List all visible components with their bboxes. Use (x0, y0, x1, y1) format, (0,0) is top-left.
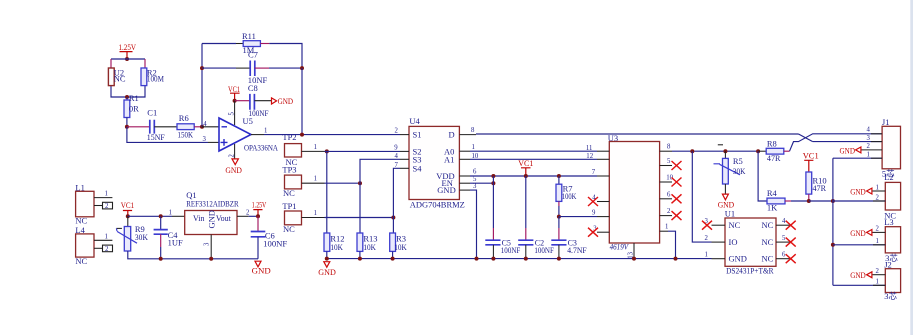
wire (maroon) node to C1 (127, 126, 150, 128)
ground port (J2.2) (850, 270, 872, 280)
resistor R7 100K (556, 183, 577, 201)
svg-text:TP1: TP1 (282, 201, 296, 211)
ground port (op-amp V-) (225, 159, 242, 175)
svg-text:10K: 10K (330, 242, 343, 252)
no-connect X U3.10 (672, 178, 682, 187)
pin U3.8 (660, 150, 672, 152)
svg-text:GND: GND (252, 265, 271, 275)
wire A1 to U3.12 (470, 158, 597, 160)
pin Q1.3 (bottom) (210, 235, 212, 259)
svg-text:100NF: 100NF (263, 238, 287, 248)
resistor R13 10K (357, 233, 378, 252)
wire (maroon) C2 top stub (525, 228, 527, 240)
svg-text:NC: NC (762, 220, 774, 230)
node: column x833 junction (831, 199, 835, 203)
pin U3.10 (no connect) (660, 181, 672, 183)
pin U5.3 (208, 141, 219, 143)
svg-text:R4: R4 (767, 188, 778, 198)
power port VC1 (middle) (518, 158, 533, 176)
svg-text:1: 1 (876, 238, 879, 245)
node: VC1/R9 junction (126, 214, 130, 218)
pin U4.3 GND (459, 189, 470, 191)
svg-text:1: 1 (314, 176, 317, 183)
pin stub L2.2 (873, 200, 885, 202)
node: right rail / C7 (300, 66, 304, 70)
power port 1.25V (top-left) (119, 42, 137, 59)
svg-text:10K: 10K (363, 242, 376, 252)
pin stub J1.4 (871, 133, 882, 135)
wire feedback left rail (201, 44, 203, 127)
capacitor C1 15NF (147, 107, 165, 142)
svg-text:1: 1 (876, 184, 879, 191)
node: R7/C3/U3.9 junction (557, 215, 561, 219)
wire IO vertical (692, 151, 711, 242)
wire (maroon) R7 bottom stub (558, 201, 560, 206)
svg-text:A1: A1 (444, 154, 454, 164)
pin U4.7 S4 (400, 167, 409, 169)
svg-text:2: 2 (876, 226, 880, 233)
thermistor R5 30K (714, 151, 747, 194)
capacitor C7 10NF (248, 50, 268, 85)
no-connect X U3.3 (588, 228, 598, 237)
svg-text:TP3: TP3 (282, 164, 296, 174)
svg-text:J2: J2 (884, 259, 892, 269)
svg-text:15NF: 15NF (147, 132, 165, 142)
svg-text:2: 2 (395, 128, 399, 135)
svg-text:1.25V: 1.25V (119, 42, 137, 52)
svg-text:1.25V: 1.25V (252, 199, 267, 209)
node: op-amp pin4 / feedback junction (200, 125, 204, 129)
pin L2.1 (872, 190, 885, 192)
svg-text:100M: 100M (147, 74, 164, 84)
svg-text:2: 2 (705, 235, 709, 242)
wire op-amp output to S1 (264, 134, 400, 136)
svg-text:3: 3 (203, 136, 207, 143)
wire (maroon) R6 to pin4 node (194, 126, 202, 128)
pin U1.6 (no connect) (776, 258, 790, 260)
wire R4 column vertical (758, 151, 767, 201)
resistor R2 100M (141, 67, 164, 85)
svg-text:NC: NC (75, 216, 87, 226)
node: 1.25V/C6 junction (256, 214, 260, 218)
svg-text:DS2431P+T&R: DS2431P+T&R (726, 266, 774, 276)
wire VDD rail to U3.7 (470, 175, 597, 177)
connector J2 (3-pin) (884, 259, 900, 301)
wire (maroon) C6 top stub (257, 216, 259, 231)
node: rail C2 (524, 257, 528, 261)
svg-text:C1: C1 (147, 107, 157, 117)
node: VDD/VC1/C2 column (524, 174, 528, 178)
wire C8 to GND port (254, 100, 271, 102)
node: rail C3 (557, 257, 561, 261)
svg-text:30K: 30K (733, 166, 746, 176)
wire R13 column vertical (359, 183, 361, 233)
wire R7 to pin9 node (558, 206, 560, 217)
wire R4 to R10 node (791, 200, 809, 202)
wire R9 bottom to rail (128, 251, 258, 259)
node: R5 top junction (723, 149, 727, 153)
svg-text:GND: GND (318, 267, 336, 277)
node: 1.25V / loop top junction (125, 57, 129, 61)
svg-text:GND: GND (850, 228, 866, 238)
svg-text:8: 8 (471, 127, 475, 134)
wire (maroon) R4 right stub (785, 200, 791, 202)
ground port (R5) (718, 194, 735, 210)
wire C5 bottom stub (492, 245, 494, 259)
svg-text:11: 11 (586, 145, 593, 152)
no-connect X U1.3 (702, 221, 712, 230)
svg-text:1UF: 1UF (168, 237, 183, 247)
svg-text:4.7NF: 4.7NF (567, 246, 587, 255)
wire C6 bottom to rail end (257, 237, 259, 259)
svg-text:1: 1 (314, 210, 317, 217)
pin stub J1.1 (871, 157, 882, 159)
node: rail R3 (391, 257, 395, 261)
svg-text:VC1: VC1 (518, 158, 533, 168)
pin R11.1 (236, 43, 243, 45)
wire feedback right rail down to output (301, 68, 303, 135)
wire op-amp pin3 row (127, 127, 208, 143)
wire R7 column top stub (558, 176, 560, 184)
wire R11 to right rail (269, 44, 302, 69)
wire S4 column vertical (393, 168, 400, 217)
no-connect X U1.6 (786, 254, 796, 263)
svg-text:GND: GND (437, 185, 455, 195)
capacitor C4 1UF (154, 230, 183, 248)
pin J2.1 / wire to column (833, 284, 885, 286)
svg-text:2: 2 (246, 209, 250, 216)
resistor R1 0R (124, 93, 139, 117)
test point TP1 (282, 201, 301, 234)
node: rail Q1.3 (209, 257, 213, 261)
connector L3 (3-pin) (884, 217, 900, 263)
pin stub J1.3 (871, 141, 882, 143)
svg-text:C7: C7 (248, 50, 258, 60)
node: EN/C5 column (491, 181, 495, 185)
power port 1.25V (bottom) (252, 199, 267, 216)
ground port (J1.2) (840, 145, 861, 155)
svg-text:47R: 47R (813, 183, 827, 193)
capacitor C6 100NF (251, 230, 288, 248)
node: rail U3.1 (674, 257, 678, 261)
pin U4.8 D (459, 134, 476, 136)
pin L4.1 (94, 239, 112, 241)
svg-text:4: 4 (395, 153, 399, 160)
svg-text:Vout: Vout (216, 214, 232, 223)
wire Q1.2 to 1.25V node (249, 215, 258, 217)
wire R12 bottom stub (326, 251, 328, 258)
wire (maroon) R11 right (260, 43, 269, 45)
pin L1.2 (boxed) (94, 205, 103, 207)
node: R4/R10 junction (807, 199, 811, 203)
pin U1.3 (no connect) (712, 224, 726, 226)
wire (maroon) C3 top stub (558, 228, 560, 240)
svg-text:S1: S1 (413, 130, 422, 140)
svg-text:GND: GND (225, 165, 242, 175)
svg-text:C8: C8 (248, 83, 258, 93)
connector L1 (NC) (75, 182, 94, 225)
wire S3 column vertical (360, 159, 400, 183)
svg-text:GND: GND (729, 254, 747, 264)
node: rail R13 (358, 257, 362, 261)
svg-text:R1: R1 (129, 93, 139, 103)
resistor R3 10K (390, 233, 408, 252)
pin U4.2 S1 (400, 134, 409, 136)
pin U4.1 A0 (459, 150, 470, 152)
test point TP2 (282, 132, 301, 167)
wire C1 to R6 (154, 126, 177, 128)
pin C7.1 (236, 67, 250, 69)
node: R1/C1/pin3 junction (125, 125, 129, 129)
svg-text:6: 6 (473, 169, 477, 176)
no-connect X U1.5 (786, 238, 796, 247)
svg-text:3芯: 3芯 (884, 291, 897, 301)
svg-text:NC: NC (283, 224, 295, 234)
small dash above R5 (718, 144, 723, 146)
svg-text:IO: IO (729, 237, 738, 247)
svg-text:4: 4 (867, 127, 871, 134)
pin TP1.1 (302, 217, 325, 219)
svg-text:1: 1 (314, 144, 317, 151)
resistor R10 47R (806, 172, 827, 194)
pin U3.6 (no connect) (660, 198, 672, 200)
wire middle GND rail (327, 258, 712, 260)
wire C2 bottom stub (525, 245, 527, 259)
small dash above R9 (116, 227, 122, 229)
svg-text:NC: NC (762, 254, 774, 264)
IC U1 DS2431P+T&R (725, 209, 776, 276)
svg-text:NC: NC (729, 220, 741, 230)
wire TP1 to S4 column (325, 217, 394, 219)
node: rail C5 (491, 257, 495, 261)
svg-text:0R: 0R (129, 104, 139, 114)
node: TP2 / R12 junction (325, 149, 329, 153)
svg-text:1: 1 (867, 151, 870, 158)
svg-text:GND: GND (840, 145, 856, 155)
pin stub J2.1 (873, 284, 885, 286)
pin J2.2 (872, 274, 885, 276)
wire C7 to right rail (269, 67, 302, 69)
wire column x833 vertical (832, 158, 834, 285)
pin U3.3 (no connect) (597, 231, 609, 233)
wire C4 column top stub (160, 216, 162, 229)
pin Q1.1 Vin (172, 215, 185, 217)
ground port (mid rail) (318, 262, 336, 277)
connector L4 (NC) (75, 225, 94, 266)
pin U4.4 S3 (400, 158, 409, 160)
pin U4.6 VDD (459, 175, 470, 177)
svg-text:L3: L3 (884, 217, 893, 227)
wire U4 GND down to rail (470, 190, 477, 259)
svg-text:9: 9 (592, 209, 596, 216)
svg-text:2: 2 (876, 195, 880, 202)
pin U5.1 (output) (251, 134, 264, 136)
svg-text:1: 1 (472, 144, 475, 151)
svg-text:5: 5 (782, 235, 786, 242)
svg-text:2: 2 (105, 203, 109, 210)
svg-text:4619V: 4619V (610, 242, 630, 252)
svg-text:OPA336NA: OPA336NA (244, 142, 279, 152)
wire (maroon) C4 bottom stub (160, 234, 162, 247)
svg-text:VC1: VC1 (803, 151, 819, 161)
wire R13 bottom stub (359, 251, 361, 258)
multiplexer U4 ADG704BRMZ (409, 116, 465, 209)
regulator Q1 REF3312AIDBZR (185, 190, 239, 235)
op-amp U5 OPA336NA (203, 112, 279, 158)
svg-text:NC: NC (283, 188, 295, 198)
ground port (L3.2) (850, 228, 872, 238)
svg-text:2: 2 (876, 268, 880, 275)
connector L2 (NC) (884, 172, 900, 221)
svg-text:Vin: Vin (193, 214, 205, 223)
node: output / feedback junction (300, 133, 304, 137)
pin L1.1 (94, 197, 112, 199)
resistor R8 47R (759, 138, 784, 162)
component U2 (NC) (108, 67, 126, 85)
wire U3.8 to R8 (672, 150, 759, 152)
svg-text:6: 6 (782, 252, 786, 259)
pin U4.9 S2 (400, 150, 409, 152)
pin U5.4 (202, 126, 219, 128)
wire U3.1 down to rail (668, 231, 676, 258)
thermistor R9 30K (116, 216, 148, 251)
svg-text:1: 1 (876, 279, 879, 286)
pin U3.13 (bottom) (633, 243, 635, 259)
svg-text:1: 1 (105, 191, 108, 198)
svg-text:12: 12 (586, 153, 593, 160)
wire R12 column vertical (326, 151, 328, 233)
svg-text:100NF: 100NF (501, 246, 521, 255)
pin TP2.1 (302, 150, 325, 152)
IC U3 (4619V) (608, 133, 660, 252)
node: TP3 / R13 junction (358, 181, 362, 185)
pin U4.10 A1 (459, 158, 470, 160)
connector J1 (5-pin) (882, 117, 901, 178)
svg-text:7: 7 (592, 169, 596, 176)
svg-text:U1: U1 (725, 209, 735, 219)
svg-text:3: 3 (473, 183, 477, 190)
pin U3.7 (597, 175, 609, 177)
svg-text:5: 5 (473, 176, 477, 183)
svg-text:R5: R5 (733, 156, 743, 166)
svg-text:1: 1 (264, 128, 267, 135)
svg-text:GND: GND (278, 96, 294, 106)
power port VC1 (at C8) (228, 84, 240, 101)
wire loop bottom (111, 86, 145, 97)
wire R3 column vertical (392, 218, 394, 234)
svg-text:2: 2 (105, 246, 109, 253)
svg-text:R6: R6 (179, 113, 189, 123)
svg-text:L2: L2 (884, 172, 893, 182)
node: VDD/R7 column (557, 174, 561, 178)
node: VC1 / C8 / op-amp pin5 (233, 99, 237, 103)
svg-text:GND: GND (850, 270, 866, 280)
svg-text:1K: 1K (767, 203, 778, 213)
svg-text:NC: NC (114, 74, 126, 84)
wire D long bus to crossover (476, 133, 799, 135)
svg-text:NC: NC (75, 256, 87, 266)
svg-text:100NF: 100NF (534, 246, 554, 255)
svg-text:R11: R11 (242, 31, 256, 41)
wire R10 node to L2 column (809, 200, 833, 202)
pin U3.4 (no connect) (597, 201, 609, 203)
pin U5.2 (V-) (234, 144, 236, 159)
svg-text:8: 8 (667, 144, 671, 151)
svg-text:R8: R8 (767, 138, 777, 148)
pin U1.4 (no connect) (776, 224, 790, 226)
svg-text:ADG704BRMZ: ADG704BRMZ (410, 199, 465, 209)
pin U3.11 (597, 150, 609, 152)
pin U1.2 IO (712, 241, 726, 243)
svg-text:2: 2 (667, 208, 671, 215)
capacitor C3 4.7NF (551, 239, 587, 255)
svg-text:10K: 10K (394, 242, 407, 252)
svg-text:150K: 150K (178, 129, 194, 139)
wire R11 top rail left (202, 43, 236, 45)
svg-text:1: 1 (665, 224, 668, 231)
pin U1.1 GND (712, 258, 726, 260)
ground port (right of C8) (272, 96, 294, 106)
pin U3.9 (597, 216, 609, 218)
wire R3 bottom stub (392, 251, 394, 258)
svg-text:GND: GND (850, 186, 866, 196)
node: C4 top junction (159, 214, 163, 218)
node: feedback left / C7 tap (200, 66, 204, 70)
svg-text:3: 3 (867, 135, 871, 142)
wire A0 to U3.11 (470, 150, 597, 152)
wire (maroon) C7 right (255, 67, 269, 69)
capacitor C8 100NF (248, 83, 269, 118)
pin U3.5 (no connect) (660, 165, 672, 167)
wire EN to C5 column (470, 182, 493, 184)
resistor R12 10K (324, 233, 345, 252)
wire C3 column down (558, 217, 560, 228)
capacitor C5 100NF (485, 239, 520, 255)
power port VC1 (right) (803, 151, 819, 172)
svg-text:47R: 47R (767, 153, 781, 163)
pin stub L3.1 (873, 244, 885, 246)
svg-text:4: 4 (782, 218, 786, 225)
svg-text:S4: S4 (413, 163, 423, 173)
pin Q1.2 Vout (237, 215, 249, 217)
svg-text:1: 1 (169, 209, 172, 216)
pin L2.2 / wire to column (833, 200, 885, 202)
wire loop top (111, 58, 145, 60)
wire D branch crossover to J1.3 (799, 134, 813, 142)
svg-text:NC: NC (762, 237, 774, 247)
ground port (L2.1) (850, 186, 872, 196)
pin L3.1 / wire to column (833, 244, 885, 246)
power port VC1 (bottom-left) (121, 200, 135, 216)
no-connect X U3.6 (672, 194, 682, 203)
wire (maroon) R10 bottom stub (808, 194, 810, 201)
pin L3.2 (872, 231, 885, 233)
wire loop bottom to R1 (126, 97, 128, 100)
wire VC1 node to C4/Q1 (128, 215, 172, 217)
resistor R4 1K (767, 188, 785, 213)
resistor R6 150K (177, 113, 194, 139)
pin TP3.1 (302, 182, 325, 184)
wire C2 column down (525, 176, 527, 228)
pin L4.2 (boxed) (94, 247, 103, 249)
svg-text:U5: U5 (243, 116, 253, 126)
wire C4 to rail (160, 247, 162, 259)
wire TP3 to S3 column (325, 182, 361, 184)
pin J1.2 (861, 149, 882, 151)
node: rail U4-gnd (475, 257, 479, 261)
svg-text:100K: 100K (562, 191, 577, 201)
node: loop bottom junction (125, 95, 129, 99)
